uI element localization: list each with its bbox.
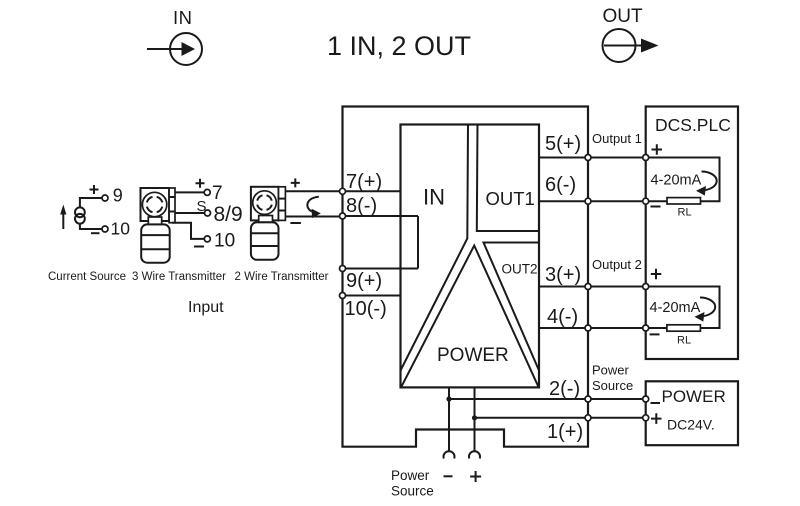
terminal 8/9 (3-wire) bbox=[205, 210, 211, 216]
wire: terminal 4 row to DCS bbox=[539, 327, 646, 329]
wire: 2-wire transmitter - to module terminal 8 bbox=[285, 216, 340, 218]
isolation channel left line bbox=[401, 125, 469, 371]
resistor RL (output 1) bbox=[667, 198, 701, 204]
wire: power feed right (terminal 1 row) bbox=[474, 387, 476, 451]
wire: terminal 6 row to DCS bbox=[539, 200, 646, 202]
current source arrow bbox=[60, 205, 66, 230]
svg-text:Output 2: Output 2 bbox=[592, 257, 642, 272]
svg-text:2 Wire Transmitter: 2 Wire Transmitter bbox=[235, 271, 329, 283]
module terminal 3 bbox=[585, 284, 591, 290]
svg-text:6(-): 6(-) bbox=[545, 174, 576, 196]
plus label (POWER box) bbox=[651, 413, 662, 424]
svg-text:RL: RL bbox=[678, 207, 692, 219]
wire: 3-wire transmitter S to terminal 8/9 bbox=[175, 212, 204, 214]
wire: current source + to terminal 9 bbox=[80, 198, 102, 207]
svg-text:POWER: POWER bbox=[662, 387, 726, 406]
svg-text:Source: Source bbox=[391, 484, 434, 499]
svg-text:3 Wire Transmitter: 3 Wire Transmitter bbox=[132, 271, 226, 283]
wire: 3-wire transmitter + to terminal 7 bbox=[175, 191, 204, 193]
svg-text:OUT2: OUT2 bbox=[502, 262, 538, 277]
svg-text:10: 10 bbox=[214, 230, 235, 251]
minus label (POWER box) bbox=[651, 402, 661, 404]
svg-text:DC24V.: DC24V. bbox=[667, 417, 715, 433]
plus label (output 1) bbox=[652, 144, 663, 155]
minus label (output 1) bbox=[651, 206, 661, 208]
module terminal 4 bbox=[585, 325, 591, 331]
module terminal 7 bbox=[340, 188, 346, 194]
wire: 3-wire transmitter - to terminal 10 bbox=[172, 223, 205, 239]
svg-text:10: 10 bbox=[111, 218, 131, 238]
svg-text:9(+): 9(+) bbox=[346, 270, 382, 292]
output 2 load loop bbox=[646, 287, 720, 329]
DCS terminal 6 bbox=[643, 198, 649, 204]
module terminal 8 bbox=[340, 213, 346, 219]
terminal 10 (3-wire) bbox=[204, 236, 210, 242]
svg-text:OUT: OUT bbox=[603, 6, 644, 27]
svg-text:5(+): 5(+) bbox=[545, 133, 581, 155]
svg-text:1 IN, 2 OUT: 1 IN, 2 OUT bbox=[327, 31, 471, 61]
minus label (power source) bbox=[444, 475, 453, 477]
wire: current source - to terminal 10 bbox=[80, 224, 102, 229]
svg-text:POWER: POWER bbox=[437, 345, 509, 366]
OUT2 separator bbox=[484, 243, 540, 371]
minus label (2-wire) bbox=[290, 222, 301, 224]
junction: power feed right bbox=[472, 415, 477, 420]
2-wire transmitter body bbox=[251, 222, 279, 259]
wire: terminal 8 row bbox=[343, 215, 419, 217]
svg-text:Source: Source bbox=[592, 378, 633, 393]
power source hook - bbox=[444, 451, 455, 458]
svg-text:8/9: 8/9 bbox=[214, 203, 243, 226]
plus label (3-wire) bbox=[196, 179, 205, 188]
svg-text:Current Source: Current Source bbox=[48, 271, 126, 283]
module terminal 9 bbox=[340, 266, 346, 272]
DCS terminal 3 bbox=[643, 284, 649, 290]
input sense box edge bbox=[417, 216, 419, 269]
wire: terminal 3 row to DCS bbox=[539, 286, 646, 288]
current source symbol (two circles) bbox=[75, 207, 85, 223]
resistor RL (output 2) bbox=[667, 325, 701, 331]
svg-text:Input: Input bbox=[188, 299, 224, 316]
svg-text:DCS.PLC: DCS.PLC bbox=[655, 115, 731, 135]
svg-text:Power: Power bbox=[592, 363, 630, 378]
svg-text:Power: Power bbox=[391, 468, 430, 483]
wire: terminal 2 row to POWER box bbox=[449, 398, 646, 400]
power triangle bbox=[401, 246, 539, 388]
loop arrow (output 2) bbox=[695, 298, 716, 322]
svg-text:2(-): 2(-) bbox=[549, 378, 580, 400]
3-wire transmitter neck bbox=[148, 217, 161, 224]
wire: power feed left (terminal 2 row) bbox=[448, 387, 450, 451]
module terminal 10 bbox=[340, 293, 346, 299]
terminal 7 (3-wire) bbox=[204, 189, 210, 195]
module outer box bbox=[343, 107, 589, 447]
svg-text:IN: IN bbox=[173, 7, 193, 28]
svg-text:IN: IN bbox=[423, 185, 445, 210]
svg-text:4(-): 4(-) bbox=[547, 306, 578, 328]
DCS terminal 4 bbox=[643, 325, 649, 331]
POWER terminal 2 bbox=[643, 396, 649, 402]
svg-text:Output 1: Output 1 bbox=[592, 131, 642, 146]
2-wire transmitter terminal block bbox=[279, 187, 286, 221]
POWER terminal 1 bbox=[643, 415, 649, 421]
wire: terminal 9 row bbox=[343, 268, 419, 270]
svg-text:OUT1: OUT1 bbox=[486, 188, 535, 209]
plus label (power source) bbox=[470, 471, 481, 482]
svg-text:3(+): 3(+) bbox=[545, 264, 581, 286]
terminal 9 (current source) bbox=[102, 195, 108, 201]
minus label (current source) bbox=[91, 232, 100, 234]
wire: terminal 10 row bbox=[343, 295, 401, 297]
svg-text:RL: RL bbox=[677, 335, 691, 347]
module inner box bbox=[401, 125, 540, 388]
module terminal 2 bbox=[585, 396, 591, 402]
wire: terminal 5 row to DCS bbox=[539, 157, 646, 159]
wire: terminal 1 row to POWER box bbox=[475, 417, 646, 419]
2-wire transmitter head bbox=[251, 187, 279, 221]
3-wire transmitter terminal block bbox=[169, 188, 175, 223]
minus label (output 2) bbox=[650, 333, 660, 335]
junction: power feed left bbox=[446, 396, 451, 401]
3-wire transmitter head bbox=[141, 188, 170, 221]
DCS terminal 5 bbox=[643, 155, 649, 161]
wire: 2-wire transmitter + to module terminal 7 bbox=[285, 190, 340, 192]
plus label (current source) bbox=[90, 185, 99, 194]
loop arrow (output 1) bbox=[696, 171, 717, 195]
3-wire transmitter body bbox=[141, 224, 170, 262]
svg-text:1(+): 1(+) bbox=[547, 421, 583, 443]
POWER box bbox=[646, 381, 738, 445]
terminal 10 (current source) bbox=[102, 226, 108, 232]
plus label (2-wire) bbox=[291, 178, 300, 187]
svg-text:8(-): 8(-) bbox=[346, 195, 377, 217]
DCS.PLC box bbox=[646, 107, 738, 360]
svg-text:4-20mA: 4-20mA bbox=[651, 173, 702, 189]
module terminal 6 bbox=[585, 198, 591, 204]
IN symbol icon bbox=[147, 33, 202, 65]
power source hook + bbox=[469, 451, 480, 458]
plus label (output 2) bbox=[651, 269, 662, 280]
svg-text:4-20mA: 4-20mA bbox=[650, 300, 701, 316]
OUT symbol icon bbox=[603, 29, 659, 62]
2-wire transmitter neck bbox=[259, 216, 273, 223]
svg-text:7: 7 bbox=[212, 183, 223, 204]
module terminal 5 bbox=[585, 155, 591, 161]
loop arrow (2-wire current direction) bbox=[307, 197, 320, 218]
svg-text:7(+): 7(+) bbox=[346, 171, 382, 193]
svg-text:10(-): 10(-) bbox=[345, 298, 387, 320]
minus label (3-wire) bbox=[194, 246, 204, 248]
wire: terminal 7 row bbox=[343, 190, 401, 192]
module terminal 1 bbox=[585, 415, 591, 421]
output 1 load loop bbox=[646, 158, 720, 202]
svg-text:9: 9 bbox=[113, 185, 123, 205]
isolation channel right line + OUT1 bottom bbox=[477, 125, 539, 232]
